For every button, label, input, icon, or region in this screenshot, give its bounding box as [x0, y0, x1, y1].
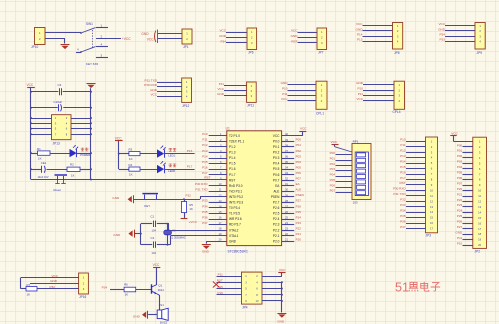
svg-text:P27: P27 — [296, 199, 302, 203]
svg-text:P06: P06 — [330, 183, 336, 187]
svg-text:JP3: JP3 — [426, 234, 432, 238]
svg-text:LED0: LED0 — [168, 169, 175, 173]
svg-text:P16: P16 — [217, 291, 223, 295]
svg-text:JP2: JP2 — [475, 250, 481, 254]
svg-text:JP4: JP4 — [242, 305, 248, 309]
svg-text:P27: P27 — [457, 225, 463, 229]
svg-text:JP16: JP16 — [79, 295, 86, 299]
svg-text:P02: P02 — [457, 154, 463, 158]
svg-text:RST: RST — [229, 178, 235, 182]
svg-text:18: 18 — [219, 227, 222, 231]
svg-text:JP12: JP12 — [182, 104, 189, 108]
svg-text:JP7: JP7 — [318, 51, 324, 55]
svg-text:9012: 9012 — [158, 288, 165, 292]
svg-text:P00: P00 — [457, 143, 463, 147]
svg-text:P11: P11 — [358, 92, 364, 96]
svg-text:P32: P32 — [400, 198, 406, 202]
svg-text:51: 51 — [395, 280, 409, 294]
svg-text:P20: P20 — [296, 238, 302, 242]
svg-text:VCC: VCC — [291, 28, 298, 32]
svg-text:31: 31 — [285, 182, 288, 186]
svg-text:30: 30 — [285, 188, 288, 192]
svg-text:PSEN: PSEN — [296, 193, 304, 197]
svg-text:P24: P24 — [457, 209, 463, 213]
svg-text:P06: P06 — [296, 171, 302, 175]
svg-text:P02: P02 — [330, 162, 336, 166]
svg-text:WR P3.6: WR P3.6 — [229, 217, 242, 221]
svg-text:+VCC: +VCC — [122, 37, 132, 41]
svg-text:P14: P14 — [357, 33, 363, 37]
svg-text:T2EX P1.1: T2EX P1.1 — [229, 139, 244, 143]
svg-text:RD P3.7: RD P3.7 — [229, 223, 241, 227]
svg-text:CE1: CE1 — [41, 161, 47, 165]
svg-text:1K: 1K — [129, 157, 133, 161]
svg-text:R6: R6 — [124, 282, 128, 286]
svg-text:P13: P13 — [357, 38, 363, 42]
svg-text:VCC: VCC — [273, 134, 280, 138]
svg-text:34: 34 — [285, 166, 288, 170]
svg-text:12: 12 — [430, 199, 433, 203]
svg-text:VCC: VCC — [279, 268, 286, 272]
svg-text:P2.3: P2.3 — [273, 223, 280, 227]
svg-text:ALE: ALE — [296, 188, 302, 192]
svg-text:JP13: JP13 — [53, 142, 60, 146]
svg-text:GND: GND — [133, 315, 141, 319]
svg-text:VCC: VCC — [438, 22, 445, 26]
svg-text:P01: P01 — [330, 156, 336, 160]
svg-text:P33: P33 — [400, 203, 406, 207]
svg-text:GND: GND — [219, 34, 227, 38]
svg-text:SW1: SW1 — [86, 22, 93, 26]
svg-text:GND: GND — [456, 230, 464, 234]
svg-text:P04: P04 — [330, 173, 336, 177]
svg-text:P2.7: P2.7 — [273, 201, 280, 205]
svg-text:23: 23 — [285, 227, 288, 231]
svg-text:VCC: VCC — [300, 127, 307, 131]
svg-text:P20: P20 — [457, 187, 463, 191]
svg-text:P10: P10 — [457, 241, 463, 245]
svg-text:P30 RXD: P30 RXD — [195, 182, 208, 186]
svg-text:P0.6: P0.6 — [273, 173, 280, 177]
svg-text:P1.3: P1.3 — [229, 151, 236, 155]
svg-text:P17: P17 — [202, 171, 208, 175]
svg-text:VCC: VCC — [150, 93, 157, 97]
svg-text:18: 18 — [478, 232, 481, 236]
svg-text:20: 20 — [478, 243, 481, 247]
svg-text:CPL1: CPL1 — [316, 112, 324, 116]
svg-text:P11: P11 — [400, 143, 405, 147]
svg-text:10: 10 — [256, 299, 259, 303]
svg-text:P0.0: P0.0 — [273, 139, 280, 143]
svg-text:36: 36 — [285, 154, 288, 158]
svg-text:P34: P34 — [220, 39, 226, 43]
svg-text:P13: P13 — [400, 154, 406, 158]
svg-text:VCC: VCC — [217, 87, 224, 91]
svg-text:JP1: JP1 — [183, 45, 189, 49]
svg-text:JP8: JP8 — [394, 51, 400, 55]
svg-text:R3: R3 — [129, 147, 133, 151]
svg-text:10: 10 — [430, 188, 433, 192]
svg-text:PSEN: PSEN — [271, 195, 280, 199]
svg-text:12: 12 — [478, 200, 481, 204]
svg-text:JP10: JP10 — [31, 45, 38, 49]
svg-text:R4: R4 — [129, 163, 133, 167]
svg-text:T1 P3.5: T1 P3.5 — [229, 212, 240, 216]
svg-text:VCC: VCC — [331, 140, 338, 144]
svg-text:P11: P11 — [219, 82, 225, 86]
svg-text:VCC: VCC — [356, 97, 363, 101]
svg-text:GND: GND — [141, 32, 149, 36]
svg-text:P1.4: P1.4 — [229, 156, 236, 160]
svg-text:VCC: VCC — [281, 97, 288, 101]
svg-text:16: 16 — [430, 221, 433, 225]
svg-text:P0.2: P0.2 — [273, 151, 280, 155]
svg-text:P01: P01 — [457, 149, 463, 153]
svg-text:P10: P10 — [282, 87, 288, 91]
svg-text:19: 19 — [478, 238, 481, 242]
svg-text:XTAL2: XTAL2 — [229, 228, 239, 232]
svg-text:P0.3: P0.3 — [273, 156, 280, 160]
svg-text:RxD P3.0: RxD P3.0 — [229, 184, 243, 188]
svg-text:P35: P35 — [202, 210, 208, 214]
svg-text:P11: P11 — [218, 272, 223, 276]
svg-text:P00: P00 — [296, 138, 302, 142]
svg-text:P2.4: P2.4 — [273, 217, 280, 221]
svg-text:P03: P03 — [296, 154, 302, 158]
svg-text:EA: EA — [296, 182, 300, 186]
svg-text:16: 16 — [219, 215, 222, 219]
svg-text:16: 16 — [478, 221, 481, 225]
svg-text:VCC: VCC — [153, 263, 160, 267]
svg-text:KEY 6X6: KEY 6X6 — [86, 62, 98, 66]
svg-text:RP1: RP1 — [353, 140, 359, 144]
svg-text:P34: P34 — [102, 285, 108, 289]
svg-text:GND: GND — [281, 81, 289, 85]
svg-text:VCC: VCC — [219, 28, 226, 32]
svg-text:ALE: ALE — [273, 189, 279, 193]
svg-text:GND: GND — [356, 81, 364, 85]
svg-text:KEY: KEY — [144, 204, 150, 208]
svg-text:P16: P16 — [187, 149, 193, 153]
svg-text:Reset: Reset — [54, 188, 62, 192]
svg-text:13: 13 — [219, 199, 222, 203]
svg-text:P00: P00 — [330, 151, 336, 155]
svg-text:13: 13 — [430, 205, 433, 209]
svg-text:17: 17 — [430, 227, 433, 231]
svg-text:P32: P32 — [186, 193, 192, 197]
svg-text:P0.5: P0.5 — [273, 167, 280, 171]
svg-text:P26: P26 — [296, 204, 302, 208]
svg-text:P05: P05 — [330, 178, 336, 182]
svg-text:21: 21 — [285, 238, 288, 242]
svg-text:P0.1: P0.1 — [273, 145, 280, 149]
svg-text:P31 TXD: P31 TXD — [145, 78, 158, 82]
svg-text:P10: P10 — [357, 87, 363, 91]
svg-text:P31 TXD: P31 TXD — [393, 192, 406, 196]
svg-text:P0.4: P0.4 — [273, 162, 280, 166]
svg-text:14: 14 — [219, 204, 222, 208]
svg-text:P31 TXD: P31 TXD — [195, 188, 208, 192]
svg-text:VCC: VCC — [451, 131, 458, 135]
svg-text:GND: GND — [50, 279, 58, 283]
svg-text:P11: P11 — [282, 92, 288, 96]
svg-text:13: 13 — [478, 205, 481, 209]
svg-text:JP9: JP9 — [477, 51, 483, 55]
svg-text:33: 33 — [285, 171, 288, 175]
svg-text:T0 P3.4: T0 P3.4 — [229, 206, 240, 210]
svg-text:15: 15 — [219, 210, 222, 214]
svg-text:1K: 1K — [27, 292, 31, 296]
svg-text:P21: P21 — [296, 232, 302, 236]
svg-text:P1.7: P1.7 — [229, 173, 236, 177]
svg-text:P03: P03 — [330, 167, 336, 171]
svg-text:+VCC: +VCC — [189, 220, 198, 224]
svg-text:P24: P24 — [296, 215, 302, 219]
svg-text:P03: P03 — [457, 160, 463, 164]
svg-text:GND: GND — [217, 92, 225, 96]
svg-text:15: 15 — [478, 216, 481, 220]
svg-text:12: 12 — [219, 193, 222, 197]
svg-text:P16: P16 — [400, 170, 406, 174]
svg-text:P1.6: P1.6 — [229, 167, 236, 171]
svg-text:VCC: VCC — [147, 37, 154, 41]
svg-text:RST: RST — [204, 176, 210, 180]
svg-text:P06: P06 — [457, 176, 463, 180]
svg-text:P23: P23 — [457, 203, 463, 207]
svg-text:LS1: LS1 — [159, 303, 165, 307]
svg-text:GND: GND — [150, 88, 158, 92]
svg-text:P01: P01 — [296, 143, 302, 147]
svg-text:P25: P25 — [457, 214, 463, 218]
svg-text:P25: P25 — [296, 210, 302, 214]
svg-text:P04: P04 — [296, 160, 302, 164]
svg-text:1K: 1K — [129, 172, 133, 176]
svg-text:38: 38 — [285, 143, 288, 147]
svg-text:P37: P37 — [202, 221, 208, 225]
svg-text:P04: P04 — [457, 165, 463, 169]
svg-text:GND: GND — [277, 319, 285, 323]
svg-text:RST: RST — [291, 39, 297, 43]
svg-text:32: 32 — [285, 177, 288, 181]
svg-text:GND: GND — [291, 34, 299, 38]
svg-text:P2.1: P2.1 — [273, 234, 280, 238]
svg-text:P33: P33 — [202, 199, 208, 203]
svg-text:17: 17 — [478, 227, 481, 231]
svg-text:1K: 1K — [71, 174, 75, 178]
svg-text:27: 27 — [285, 204, 288, 208]
svg-text:P12: P12 — [400, 149, 406, 153]
svg-text:P30 RXD: P30 RXD — [393, 187, 406, 191]
svg-text:37: 37 — [285, 149, 288, 153]
svg-text:GND: GND — [202, 250, 210, 254]
svg-text:P34: P34 — [202, 204, 208, 208]
svg-text:25: 25 — [285, 215, 288, 219]
svg-text:GND: GND — [229, 239, 237, 243]
svg-text:P26: P26 — [457, 220, 463, 224]
svg-text:19: 19 — [219, 232, 222, 236]
svg-text:P1.5: P1.5 — [229, 162, 236, 166]
svg-text:24: 24 — [285, 221, 288, 225]
svg-text:P05: P05 — [457, 171, 463, 175]
svg-text:P07: P07 — [457, 181, 463, 185]
svg-text:VCC: VCC — [27, 83, 34, 87]
svg-text:P2.6: P2.6 — [273, 206, 280, 210]
svg-text:P21: P21 — [457, 192, 463, 196]
svg-text:P33: P33 — [439, 38, 445, 42]
svg-text:P16: P16 — [202, 165, 208, 169]
svg-text:P15: P15 — [400, 165, 406, 169]
svg-text:40: 40 — [285, 132, 288, 136]
svg-text:1K: 1K — [38, 157, 42, 161]
svg-text:P36: P36 — [202, 215, 208, 219]
svg-text:103: 103 — [353, 201, 358, 205]
svg-text:GND: GND — [356, 27, 364, 31]
svg-text:P13: P13 — [202, 149, 208, 153]
svg-text:26: 26 — [285, 210, 288, 214]
svg-text:P2.0: P2.0 — [273, 239, 280, 243]
svg-text:1K: 1K — [189, 207, 193, 211]
svg-text:P23: P23 — [296, 221, 302, 225]
svg-text:10uF 16V: 10uF 16V — [38, 175, 49, 179]
svg-text:P22: P22 — [296, 226, 302, 230]
svg-text:C3: C3 — [58, 83, 62, 87]
svg-text:P14: P14 — [202, 154, 208, 158]
svg-text:P34: P34 — [439, 33, 445, 37]
svg-text:P07: P07 — [330, 189, 336, 193]
svg-text:P02: P02 — [296, 149, 302, 153]
svg-text:P10: P10 — [400, 138, 406, 142]
svg-text:P17: P17 — [400, 176, 406, 180]
svg-text:R1: R1 — [37, 147, 41, 151]
svg-text:P34: P34 — [400, 208, 406, 212]
svg-text:22: 22 — [285, 232, 288, 236]
svg-text:14: 14 — [430, 210, 433, 214]
svg-text:JP6: JP6 — [248, 51, 254, 55]
svg-text:P15: P15 — [202, 160, 208, 164]
svg-text:P36: P36 — [400, 219, 406, 223]
svg-text:BUZZ: BUZZ — [160, 321, 168, 324]
svg-text:10: 10 — [478, 189, 481, 193]
svg-text:GND: GND — [113, 233, 121, 237]
svg-text:P14: P14 — [400, 159, 406, 163]
svg-text:JP11: JP11 — [247, 104, 254, 108]
svg-text:INT1 P3.3: INT1 P3.3 — [229, 201, 243, 205]
svg-text:P12: P12 — [202, 143, 208, 147]
svg-text:GND: GND — [438, 27, 446, 31]
svg-text:Q1: Q1 — [158, 283, 162, 287]
svg-text:P2.5: P2.5 — [273, 212, 280, 216]
svg-text:R2: R2 — [70, 163, 74, 167]
svg-text:P11: P11 — [202, 138, 207, 142]
svg-text:U1: U1 — [226, 126, 230, 130]
svg-text:P10: P10 — [202, 132, 208, 136]
svg-text:28: 28 — [285, 199, 288, 203]
svg-text:TxD P3.1: TxD P3.1 — [229, 189, 242, 193]
svg-text:INT0 P3.2: INT0 P3.2 — [229, 195, 243, 199]
svg-text:VCC: VCC — [356, 22, 363, 26]
svg-text:P37: P37 — [400, 225, 406, 229]
svg-text:1K: 1K — [125, 293, 129, 297]
svg-text:C1: C1 — [151, 215, 155, 219]
svg-text:GND: GND — [112, 196, 120, 200]
svg-text:XTAL1: XTAL1 — [229, 234, 239, 238]
svg-text:R7: R7 — [27, 283, 31, 287]
svg-text:P11: P11 — [457, 236, 462, 240]
svg-text:C2: C2 — [151, 236, 155, 240]
svg-text:T2 P1.0: T2 P1.0 — [229, 134, 240, 138]
svg-text:CPL4: CPL4 — [393, 110, 401, 114]
svg-text:P30 RXD: P30 RXD — [144, 83, 158, 87]
svg-text:P22: P22 — [457, 198, 463, 202]
svg-text:29: 29 — [285, 193, 288, 197]
svg-text:C10uF: C10uF — [54, 100, 63, 104]
svg-text:15: 15 — [430, 216, 433, 220]
svg-text:RST: RST — [400, 181, 406, 185]
svg-text:P1.2: P1.2 — [229, 145, 236, 149]
svg-text:RST: RST — [217, 279, 223, 283]
svg-text:17: 17 — [219, 221, 222, 225]
svg-text:10: 10 — [219, 182, 222, 186]
svg-text:POWER: POWER — [80, 153, 90, 157]
svg-text:P0.7: P0.7 — [273, 178, 280, 182]
svg-text:11: 11 — [430, 194, 433, 198]
svg-text:35: 35 — [285, 160, 288, 164]
svg-text:104: 104 — [152, 251, 157, 255]
svg-text:P17: P17 — [187, 165, 193, 169]
svg-text:104: 104 — [152, 228, 157, 232]
svg-text:STC89C51RC: STC89C51RC — [228, 249, 249, 253]
svg-text:LED1: LED1 — [168, 154, 175, 158]
svg-text:P2.2: P2.2 — [273, 228, 280, 232]
svg-text:P05: P05 — [296, 165, 302, 169]
svg-text:P35: P35 — [400, 214, 406, 218]
svg-text:39: 39 — [285, 138, 288, 142]
svg-text:20: 20 — [219, 238, 222, 242]
svg-text:14: 14 — [478, 210, 481, 214]
svg-text:P07: P07 — [296, 177, 302, 181]
